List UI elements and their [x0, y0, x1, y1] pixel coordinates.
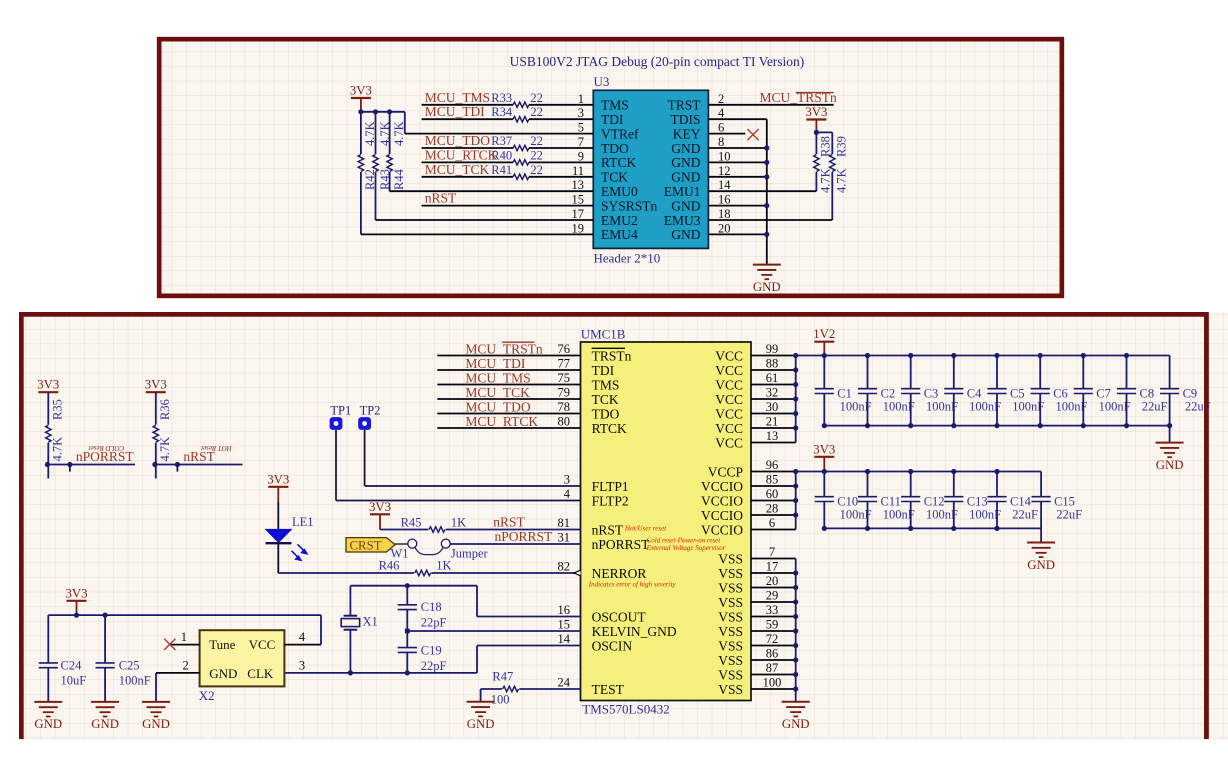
junction VCC row 4: [793, 411, 798, 416]
svg-text:X1: X1: [363, 615, 378, 629]
junction C9 bottom: [1167, 423, 1172, 428]
junction C13 top: [951, 469, 956, 474]
harness entry CRST: [346, 538, 395, 552]
wire nPORRST to pin31: [450, 543, 581, 545]
svg-text:C5: C5: [1010, 386, 1025, 400]
junction C12 bottom: [908, 526, 913, 531]
svg-text:VSS: VSS: [718, 566, 743, 581]
wire R47 to TEST pin: [519, 688, 580, 690]
svg-text:22: 22: [530, 163, 543, 177]
wire NERROR to pin82: [431, 572, 580, 574]
wire X2 CLK row: [284, 672, 477, 674]
junction VSS row 18: [793, 614, 798, 619]
X2 pin4 VCC wire: [284, 644, 321, 646]
svg-text:R33: R33: [491, 91, 512, 105]
X2 pin2 GND wire: [156, 672, 200, 674]
svg-text:X2: X2: [199, 688, 215, 703]
wire pullup bus: [361, 111, 405, 113]
wire 3V3 to R38 R39: [815, 120, 817, 133]
svg-text:10uF: 10uF: [61, 674, 87, 688]
svg-text:GND: GND: [91, 717, 119, 731]
svg-text:TEST: TEST: [592, 682, 625, 697]
svg-text:COLD Reset: COLD Reset: [88, 444, 125, 452]
wire nRST left: [380, 529, 428, 531]
ground C24: [34, 701, 62, 703]
junction R35 a: [45, 462, 50, 467]
svg-text:10: 10: [718, 149, 731, 163]
svg-text:GND: GND: [34, 717, 62, 731]
svg-text:GND: GND: [671, 141, 700, 156]
capacitor C18 22pF: [406, 586, 408, 605]
svg-text:MCU_RTCK: MCU_RTCK: [425, 147, 498, 162]
resistor R37 22: [513, 145, 529, 150]
capacitor C3 100nF: [910, 356, 912, 389]
junction C5 bottom: [994, 423, 999, 428]
wire C15 to gnd: [1040, 528, 1042, 542]
svg-text:TDO: TDO: [592, 406, 620, 421]
oscillator X2 body: [200, 630, 285, 686]
resistor R45 1K: [429, 527, 445, 532]
wire nRST to pin81: [446, 529, 581, 531]
junction 3V3 stub: [74, 613, 79, 618]
svg-text:13: 13: [766, 429, 779, 443]
wire pin4 to gnd bus: [708, 118, 766, 120]
power 3V3 R45: [370, 513, 390, 515]
svg-text:3V3: 3V3: [813, 442, 835, 456]
ground X2: [142, 701, 170, 703]
junction C2 top: [865, 353, 870, 358]
junction C1 top: [822, 353, 827, 358]
svg-text:VCC: VCC: [715, 363, 743, 378]
svg-text:88: 88: [766, 357, 779, 371]
svg-text:TCK: TCK: [592, 392, 619, 407]
junction C3 bottom: [908, 423, 913, 428]
svg-text:nRST: nRST: [592, 522, 624, 537]
wire 3V3 rail: [48, 614, 321, 616]
MCU sheet background: [19, 312, 1228, 739]
svg-text:11: 11: [572, 164, 584, 178]
wire nRST row: [155, 464, 243, 466]
svg-text:13: 13: [572, 178, 585, 192]
svg-text:C6: C6: [1053, 386, 1068, 400]
resistor R34 22: [513, 117, 529, 122]
junction VSS row 15: [793, 570, 798, 575]
svg-text:VCC: VCC: [715, 348, 743, 363]
resistor R38 4.7K: [815, 132, 817, 154]
junction C14 top: [994, 469, 999, 474]
junction C11 top: [865, 469, 870, 474]
svg-text:TP2: TP2: [360, 404, 381, 418]
VCC stub wires: [751, 355, 796, 357]
svg-text:VSS: VSS: [718, 580, 743, 595]
svg-text:3: 3: [564, 473, 570, 487]
junction C13 bottom: [951, 526, 956, 531]
junction C11 bottom: [865, 526, 870, 531]
svg-text:14: 14: [558, 632, 571, 646]
svg-text:R36: R36: [158, 399, 172, 420]
svg-text:8: 8: [718, 135, 724, 149]
capacitor C25 100nF: [104, 615, 106, 663]
svg-text:4.7K: 4.7K: [392, 121, 406, 146]
svg-text:18: 18: [718, 207, 731, 221]
wire net MCU_TCK: [437, 398, 580, 400]
LED arrows: [292, 544, 308, 560]
svg-text:77: 77: [558, 357, 571, 371]
power 3V3 top-left: [351, 97, 371, 99]
wire LED cathode down: [277, 543, 279, 573]
svg-text:VSS: VSS: [718, 624, 743, 639]
svg-text:100: 100: [763, 676, 782, 690]
svg-text:4.7K: 4.7K: [835, 168, 849, 193]
junction VSS row 21: [793, 657, 798, 662]
resistor R35 4.7K: [47, 392, 49, 425]
junction VCC row 2: [793, 382, 798, 387]
svg-text:VSS: VSS: [718, 682, 743, 697]
wire NERROR left: [278, 572, 414, 574]
svg-text:GND: GND: [671, 198, 700, 213]
svg-text:TMS: TMS: [601, 98, 629, 113]
wire OSCOUT: [476, 586, 478, 617]
ground R47: [467, 701, 495, 703]
overline TRSTn: [796, 92, 834, 94]
svg-text:TRSTn: TRSTn: [592, 348, 632, 363]
svg-text:3V3: 3V3: [65, 586, 87, 600]
junction pullup R43: [373, 109, 378, 114]
junction VCC row 3: [793, 396, 798, 401]
svg-text:C10: C10: [837, 494, 858, 508]
svg-text:VCC: VCC: [249, 637, 276, 652]
svg-text:Header 2*10: Header 2*10: [594, 251, 661, 266]
capacitor C14 22uF: [996, 472, 998, 497]
svg-text:21: 21: [766, 415, 779, 429]
svg-text:60: 60: [766, 487, 779, 501]
ground VSS: [782, 701, 810, 703]
svg-text:C1: C1: [837, 386, 852, 400]
VSS bus vertical: [795, 559, 797, 702]
junction C2 bottom: [865, 423, 870, 428]
svg-text:32: 32: [766, 386, 779, 400]
capacitor C7 100nF: [1082, 356, 1084, 389]
svg-text:VCCIO: VCCIO: [701, 493, 743, 508]
capacitor C5 100nF: [996, 356, 998, 389]
junction C3 top: [908, 353, 913, 358]
svg-text:LE1: LE1: [292, 515, 314, 529]
svg-text:79: 79: [558, 386, 571, 400]
capacitor C2 100nF: [867, 356, 869, 389]
power 3V3 R35: [38, 391, 58, 393]
wire TP1 to FLTP2: [335, 430, 337, 501]
svg-text:C4: C4: [967, 386, 982, 400]
power 1V2: [814, 341, 834, 343]
svg-text:MCU_TDI: MCU_TDI: [425, 104, 486, 119]
resistor R43: [375, 112, 377, 154]
svg-text:VCCIO: VCCIO: [701, 508, 743, 523]
wire KELVIN_GND: [407, 630, 580, 632]
svg-text:59: 59: [766, 618, 779, 632]
capacitor C19 22pF: [406, 631, 408, 648]
svg-text:82: 82: [558, 560, 571, 574]
svg-text:17: 17: [572, 207, 585, 221]
svg-text:24: 24: [558, 676, 571, 690]
svg-text:GND: GND: [671, 155, 700, 170]
junction C12 top: [908, 469, 913, 474]
power 3V3 rail: [67, 600, 87, 602]
NERROR open arrow: [574, 570, 581, 576]
svg-text:16: 16: [558, 603, 571, 617]
svg-text:20: 20: [718, 221, 731, 235]
svg-text:EMU2: EMU2: [601, 213, 638, 228]
svg-text:GND: GND: [1156, 458, 1184, 472]
svg-text:MCU_TDI: MCU_TDI: [465, 356, 526, 371]
wire R38-R39 tap: [816, 131, 832, 133]
svg-text:1K: 1K: [436, 559, 451, 573]
svg-text:nPORRST: nPORRST: [592, 537, 651, 552]
svg-text:R41: R41: [491, 163, 512, 177]
junction pullup R44: [387, 109, 392, 114]
wire pin19 EMU4: [361, 233, 593, 235]
capacitor C10 100nF: [823, 472, 825, 497]
VCCIO bus vertical: [795, 472, 797, 530]
wire net MCU_TDO: [437, 413, 580, 415]
svg-text:4: 4: [564, 487, 571, 501]
svg-text:R39: R39: [835, 136, 849, 157]
junction pin10: [764, 160, 769, 165]
svg-text:R45: R45: [401, 516, 422, 530]
junction C7 top: [1081, 353, 1086, 358]
svg-text:TP1: TP1: [330, 404, 351, 418]
VSS stub wires: [751, 558, 796, 560]
svg-text:VSS: VSS: [718, 638, 743, 653]
junction C4 bottom: [951, 423, 956, 428]
wire net MCU_TMS: [437, 384, 580, 386]
svg-text:KEY: KEY: [673, 126, 701, 141]
svg-text:C14: C14: [1010, 494, 1032, 508]
junction VCC rail: [793, 353, 798, 358]
junction C8 top: [1124, 353, 1129, 358]
svg-text:C2: C2: [881, 386, 896, 400]
svg-text:72: 72: [766, 632, 779, 646]
capacitor C9 22uF: [1169, 356, 1171, 389]
svg-text:C12: C12: [924, 494, 945, 508]
svg-text:3V3: 3V3: [805, 105, 827, 119]
svg-text:VSS: VSS: [718, 551, 743, 566]
overline TRSTn chip: [592, 347, 625, 349]
svg-text:MCU_TCK: MCU_TCK: [465, 385, 530, 400]
svg-text:VCCIO: VCCIO: [701, 522, 743, 537]
wire pin16 to gnd bus: [708, 205, 766, 207]
gnd bus vertical: [766, 119, 768, 264]
capacitor C1 100nF: [823, 356, 825, 389]
svg-text:16: 16: [718, 193, 731, 207]
svg-text:22uF: 22uF: [1142, 400, 1168, 414]
junction C8 bottom: [1124, 423, 1129, 428]
svg-text:FLTP2: FLTP2: [592, 493, 629, 508]
junction VSS row 17: [793, 599, 798, 604]
svg-text:MCU_TMS: MCU_TMS: [425, 90, 490, 105]
svg-text:GND: GND: [671, 227, 700, 242]
svg-text:20: 20: [766, 574, 779, 588]
svg-text:4: 4: [718, 106, 725, 120]
wire 3V3 stub R45: [379, 514, 381, 529]
svg-text:3V3: 3V3: [350, 84, 372, 98]
svg-text:VSS: VSS: [718, 609, 743, 624]
junction VCC row 5: [793, 425, 798, 430]
svg-text:C11: C11: [881, 494, 901, 508]
wire C9 to gnd: [1169, 426, 1171, 443]
wire nPORRST row: [47, 464, 135, 466]
overline MCU_TRSTn: [502, 341, 534, 343]
svg-text:TCK: TCK: [601, 170, 628, 185]
wire net MCU_RTCK: [422, 161, 513, 163]
junction C19 bottom: [405, 670, 410, 675]
svg-text:12: 12: [718, 164, 731, 178]
svg-text:15: 15: [572, 193, 585, 207]
capacitor C6 100nF: [1039, 356, 1041, 389]
svg-text:GND: GND: [671, 170, 700, 185]
svg-text:VCCIO: VCCIO: [701, 479, 743, 494]
svg-text:22pF: 22pF: [421, 616, 447, 630]
svg-text:GND: GND: [753, 280, 781, 294]
jumper W1 pads: [408, 539, 417, 548]
junction R36 b: [175, 462, 180, 467]
power 3V3 R36: [146, 391, 166, 393]
power 3V3 right: [806, 118, 826, 120]
wire OSCIN: [476, 646, 478, 673]
svg-text:TRST: TRST: [667, 98, 701, 113]
svg-text:nRST: nRST: [425, 191, 457, 206]
svg-text:C25: C25: [119, 659, 140, 673]
svg-text:VCC: VCC: [715, 377, 743, 392]
junction X1 top rail C18: [405, 583, 410, 588]
svg-text:MCU_TCK: MCU_TCK: [425, 162, 490, 177]
capacitor C12 100nF: [910, 472, 912, 497]
junction C14 bottom: [994, 526, 999, 531]
junction C1 bottom: [822, 423, 827, 428]
svg-text:HOT Reset: HOT Reset: [200, 444, 233, 452]
svg-text:EMU3: EMU3: [664, 213, 701, 228]
LED LE1: [265, 529, 293, 543]
VCCIO stub wires: [751, 471, 796, 473]
capacitor C11 100nF: [867, 472, 869, 497]
svg-text:Hot/User reset: Hot/User reset: [624, 525, 667, 533]
svg-text:96: 96: [766, 458, 779, 472]
svg-text:7: 7: [578, 135, 584, 149]
svg-text:29: 29: [766, 589, 779, 603]
junction VCCIO row 11: [793, 512, 798, 517]
svg-text:100nF: 100nF: [119, 674, 151, 688]
resistor R46 1K: [415, 570, 431, 575]
no-connect X pin6: [747, 129, 758, 140]
svg-text:33: 33: [766, 603, 779, 617]
svg-text:22: 22: [530, 91, 543, 105]
junction R36 a: [152, 462, 157, 467]
junction pin8: [764, 145, 769, 150]
resistor R40 22: [513, 160, 529, 165]
svg-text:3V3: 3V3: [37, 378, 59, 392]
resistor R39 4.7K: [831, 132, 833, 154]
wire net MCU_TRSTn: [437, 355, 580, 357]
svg-text:C18: C18: [421, 600, 442, 614]
svg-text:R35: R35: [50, 399, 64, 420]
JTAG sheet border overlay: [159, 39, 1062, 296]
svg-text:GND: GND: [782, 717, 810, 731]
wire TEST left: [481, 688, 502, 690]
wire 3V3 stub: [360, 98, 362, 112]
svg-text:22: 22: [530, 148, 543, 162]
svg-text:VSS: VSS: [718, 653, 743, 668]
resistor R33 22: [513, 102, 529, 107]
svg-text:3V3: 3V3: [145, 378, 167, 392]
junction X1 bottom: [348, 670, 353, 675]
svg-text:87: 87: [766, 661, 779, 675]
svg-text:1V2: 1V2: [813, 327, 835, 341]
svg-text:TMS570LS0432: TMS570LS0432: [582, 702, 669, 717]
power 3V3 bank: [814, 456, 834, 458]
junction VCC row 1: [793, 367, 798, 372]
wire osc top rail: [350, 585, 477, 587]
junction VCCIO row 9: [793, 483, 798, 488]
svg-text:nRST: nRST: [493, 515, 525, 530]
wire pin14 EMU1: [708, 190, 816, 192]
svg-text:17: 17: [766, 560, 779, 574]
svg-text:RTCK: RTCK: [592, 421, 627, 436]
ground GND header: [753, 264, 781, 266]
svg-text:19: 19: [572, 221, 585, 235]
svg-text:61: 61: [766, 371, 779, 385]
svg-text:C19: C19: [421, 644, 442, 658]
capacitor C8 22uF: [1126, 356, 1128, 389]
svg-text:CLK: CLK: [247, 666, 274, 681]
svg-text:31: 31: [558, 531, 571, 545]
svg-text:75: 75: [558, 371, 571, 385]
wire 3V3 rail right: [796, 471, 1041, 473]
svg-text:VSS: VSS: [718, 595, 743, 610]
svg-text:nPORRST: nPORRST: [495, 529, 554, 544]
svg-text:VCC: VCC: [715, 392, 743, 407]
svg-text:SYSRSTn: SYSRSTn: [601, 198, 658, 213]
svg-text:R47: R47: [492, 670, 513, 684]
wire pin8 to gnd bus: [708, 147, 766, 149]
svg-text:C3: C3: [924, 386, 939, 400]
svg-text:22uF: 22uF: [1012, 508, 1038, 522]
svg-text:1K: 1K: [451, 516, 466, 530]
svg-text:UMC1B: UMC1B: [581, 327, 626, 342]
VCC bus vertical: [795, 356, 797, 443]
wire pin18 EMU3: [708, 219, 832, 221]
junction pullup R42: [358, 109, 363, 114]
wire 1V2 rail: [796, 355, 1170, 357]
svg-text:C24: C24: [61, 659, 83, 673]
svg-text:R34: R34: [491, 105, 513, 119]
power 3V3 LED: [268, 486, 288, 488]
junction VSS row 19: [793, 628, 798, 633]
svg-text:C13: C13: [967, 494, 988, 508]
svg-text:Tune: Tune: [209, 637, 235, 652]
wire net MCU_TCK: [422, 176, 513, 178]
svg-text:VCC: VCC: [715, 406, 743, 421]
wire net MCU_TDI: [422, 118, 513, 120]
svg-text:GND: GND: [209, 666, 237, 681]
svg-text:C8: C8: [1140, 386, 1155, 400]
svg-text:R38: R38: [819, 136, 833, 157]
svg-text:Jumper: Jumper: [451, 547, 489, 561]
svg-text:14: 14: [718, 178, 731, 192]
svg-text:3: 3: [299, 659, 305, 673]
wire net MCU_TDO: [422, 147, 513, 149]
svg-text:4.7K: 4.7K: [50, 437, 64, 462]
svg-text:30: 30: [766, 400, 779, 414]
svg-text:99: 99: [766, 342, 779, 356]
